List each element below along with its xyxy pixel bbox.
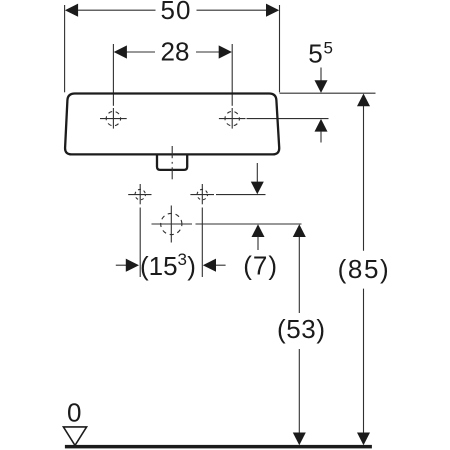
dimension (15^3): left arrow bbox=[116, 264, 127, 266]
dimension (7): upper arrow (points down) bbox=[256, 163, 258, 182]
svg-text:): ) bbox=[187, 251, 196, 281]
dimension 50: left arrowhead bbox=[65, 4, 78, 17]
dimension 50: right extension line bbox=[279, 5, 281, 92]
svg-text:0: 0 bbox=[67, 398, 81, 428]
dimension 28: right arrowhead bbox=[219, 45, 232, 58]
dimension 50: right arrowhead bbox=[266, 4, 279, 17]
right tap hole crosshair bbox=[219, 108, 246, 129]
dimension 5^5: lower arrow (points up) bbox=[315, 119, 328, 132]
dimension 28: left arrowhead bbox=[114, 45, 127, 58]
dimension 5^5: upper arrow (points down) bbox=[320, 68, 322, 82]
svg-text:5: 5 bbox=[324, 38, 333, 57]
svg-text:3: 3 bbox=[178, 250, 187, 269]
dimension 28: left extension line bbox=[112, 44, 114, 106]
drain box below basin bbox=[157, 155, 187, 170]
dimension 50: left extension line bbox=[64, 5, 66, 92]
left tap hole crosshair bbox=[100, 108, 127, 129]
svg-text:5: 5 bbox=[308, 38, 322, 68]
fixing hole level line bbox=[216, 194, 266, 196]
dimension (85): vertical line bbox=[363, 106, 365, 251]
dimension (53): vertical line bbox=[298, 236, 300, 313]
dimension (7): lower arrow (points up) bbox=[252, 224, 265, 237]
dimension (53): bottom arrow (points down) bbox=[293, 433, 306, 446]
dimension (53): top arrow (points up) bbox=[293, 224, 306, 237]
dimension 28: dimension line bbox=[125, 51, 155, 53]
drain hole dashed circle bbox=[161, 206, 182, 243]
datum triangle symbol bbox=[63, 427, 86, 446]
dimension (85): top arrow (points up) bbox=[357, 94, 370, 107]
dimension 50: dimension line bbox=[76, 9, 156, 11]
floor line bbox=[65, 445, 372, 449]
dimension (15^3): right arrow bbox=[203, 259, 216, 272]
washbasin outline bbox=[65, 94, 279, 155]
drain box centerline bbox=[171, 146, 173, 158]
svg-text:50: 50 bbox=[161, 0, 192, 25]
dimension (15^3): left extension line bbox=[139, 208, 141, 278]
svg-text:(53): (53) bbox=[277, 314, 326, 344]
right lower fixing hole crosshair bbox=[190, 184, 214, 204]
svg-text:(7): (7) bbox=[243, 251, 278, 281]
rim level reference line bbox=[280, 92, 376, 94]
left lower fixing hole crosshair bbox=[128, 184, 151, 204]
drain hole level line bbox=[152, 223, 193, 225]
svg-text:28: 28 bbox=[161, 36, 190, 66]
tap hole level reference line bbox=[247, 118, 329, 120]
dimension (15^3): right extension line bbox=[201, 208, 203, 278]
dimension (85): bottom arrow (points down) bbox=[357, 433, 370, 446]
svg-text:(85): (85) bbox=[338, 254, 391, 284]
svg-text:(15: (15 bbox=[140, 251, 178, 281]
dimension 28: right extension line bbox=[231, 44, 233, 106]
